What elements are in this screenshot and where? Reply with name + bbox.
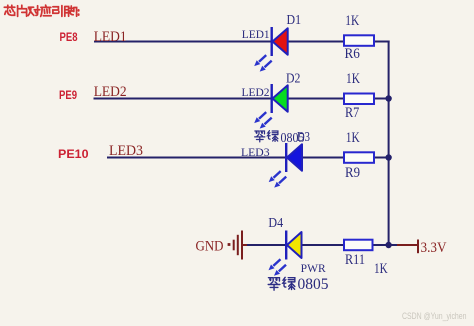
svg-text:D2: D2 [286, 71, 300, 86]
svg-text:LED3: LED3 [109, 143, 143, 159]
wire net LED2 row2 left [94, 98, 272, 100]
resistor R7 [344, 94, 374, 105]
resistor R11 [344, 240, 373, 251]
wire bus to 3.3V [389, 244, 398, 246]
wire row1 LED to R6 [288, 41, 346, 43]
LED D3 [269, 143, 302, 188]
power lead 3.3V [397, 244, 418, 246]
svg-text:LED1: LED1 [242, 27, 270, 41]
wire vertical bus [388, 41, 390, 246]
svg-text:PE9: PE9 [59, 88, 77, 102]
svg-text:R11: R11 [345, 252, 365, 268]
svg-text:PE8: PE8 [60, 30, 78, 44]
svg-text:1K: 1K [345, 13, 359, 29]
svg-text:D1: D1 [287, 12, 302, 27]
ground symbol [228, 231, 248, 260]
junction node row2 [385, 95, 391, 101]
svg-text:PWR: PWR [301, 263, 326, 275]
wire row2 R7 to bus [373, 98, 390, 100]
resistor R9 [344, 152, 374, 163]
svg-text:R7: R7 [345, 105, 359, 121]
wire net LED3 row3 left [107, 157, 286, 159]
junction node row4 [385, 242, 391, 248]
svg-text:D3: D3 [297, 129, 310, 144]
text 翠绿 0805 lower [268, 276, 329, 293]
svg-text:R6: R6 [345, 46, 360, 62]
svg-text:3.3V: 3.3V [421, 240, 447, 256]
svg-text:D4: D4 [268, 215, 283, 230]
wire row4 R11 to bus [373, 244, 390, 246]
svg-text:GND: GND [196, 239, 224, 255]
svg-text:CSDN @Yun_yichen: CSDN @Yun_yichen [402, 311, 467, 321]
wire net LED1 row1 left [94, 41, 272, 43]
LED D2 [254, 84, 288, 129]
svg-text:LED1: LED1 [94, 29, 127, 45]
wire row3 LED to R9 [302, 157, 346, 159]
svg-text:LED2: LED2 [94, 84, 127, 100]
wire row4 LED to R11 [301, 244, 345, 246]
title 芯片对应引脚: [4, 5, 78, 16]
power bar 3.3V [417, 240, 419, 254]
resistor R6 [344, 35, 374, 46]
wire row2 LED to R7 [288, 98, 346, 100]
wire row3 R9 to bus [373, 157, 390, 159]
svg-text:1K: 1K [346, 71, 360, 87]
svg-text:1K: 1K [346, 130, 360, 146]
wire row4 gnd to LED [247, 244, 286, 246]
LED D4 [269, 231, 302, 276]
wire row1 R6 to bus [373, 41, 390, 43]
svg-text:LED2: LED2 [242, 85, 270, 99]
svg-text:R9: R9 [345, 165, 360, 181]
LED D1 [254, 27, 288, 72]
junction node row3 [385, 154, 391, 160]
svg-text:LED3: LED3 [241, 145, 270, 159]
text 翠绿 0805 upper [255, 130, 305, 145]
svg-text:PE10: PE10 [58, 147, 89, 161]
svg-text:1K: 1K [374, 261, 388, 277]
svg-text:0805: 0805 [298, 276, 329, 293]
